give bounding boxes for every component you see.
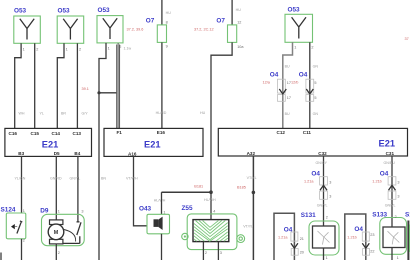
- svg-text:8: 8: [166, 21, 168, 25]
- svg-text:E21: E21: [144, 140, 161, 150]
- component S133 label: [372, 212, 387, 219]
- label BU: [285, 65, 290, 69]
- svg-text:C31: C31: [386, 151, 395, 156]
- svg-text:WH: WH: [19, 111, 25, 115]
- reference 1.21a (C32): [304, 180, 314, 184]
- connector O4 label (BU): [270, 72, 279, 79]
- svg-text:GN: GN: [313, 112, 319, 116]
- svg-text:1: 1: [66, 48, 68, 52]
- svg-text:5: 5: [314, 96, 316, 100]
- pin 2 of O53 #2: [79, 48, 81, 52]
- svg-text:2: 2: [58, 251, 60, 255]
- svg-text:S131: S131: [301, 212, 316, 219]
- svg-text:3: 3: [329, 195, 331, 199]
- component S124 (switch): [6, 213, 26, 239]
- jumper loop 2: [345, 214, 366, 260]
- svg-text:GN: GN: [313, 65, 319, 69]
- svg-text:B181: B181: [194, 185, 203, 189]
- svg-text:GN/YL: GN/YL: [317, 203, 328, 207]
- svg-text:3: 3: [81, 210, 83, 214]
- pin 23: [370, 233, 374, 237]
- svg-text:O7: O7: [146, 18, 155, 25]
- svg-text:O53: O53: [14, 7, 27, 14]
- svg-text:O53: O53: [58, 7, 71, 14]
- cross-reference 37.2, 2C.12: [194, 28, 214, 32]
- svg-text:HU: HU: [236, 8, 242, 12]
- svg-text:B185: B185: [237, 185, 246, 189]
- pin 1 of S131: [326, 256, 328, 260]
- svg-text:YL/GN: YL/GN: [15, 177, 26, 181]
- label HU: [200, 111, 206, 115]
- pin 1 of D9: [58, 210, 60, 214]
- connector O4 inline on BU wire: [278, 79, 287, 101]
- cross-reference 37.2, 39.6: [127, 28, 144, 32]
- wire C32 to S131: [323, 156, 325, 226]
- wire B3 to S124: [21, 156, 23, 213]
- pin 10a of O7#2: [237, 45, 244, 49]
- svg-text:A16: A16: [128, 151, 137, 156]
- wire color label BR: [61, 111, 66, 115]
- wire D9 bottom: [55, 244, 57, 260]
- pin 5 upper: [314, 81, 316, 85]
- pin 22: [370, 250, 374, 254]
- wire A16 to O43: [134, 156, 148, 225]
- pin 1 of O43: [163, 210, 165, 214]
- svg-text:E21: E21: [379, 139, 396, 149]
- svg-text:E16: E16: [157, 130, 166, 135]
- svg-text:GN/YL: GN/YL: [70, 177, 81, 181]
- pin 2 of S131: [326, 215, 328, 219]
- component Z55 label: [182, 205, 193, 212]
- pin C31: [386, 151, 395, 156]
- antenna O53 #2: [57, 16, 83, 43]
- svg-text:37.2, 39.6: 37.2, 39.6: [127, 28, 144, 32]
- svg-text:C12: C12: [277, 130, 286, 135]
- label 1.1w: [124, 46, 132, 50]
- cross-reference 39.1: [82, 87, 89, 91]
- component O7 #2: [228, 25, 237, 43]
- svg-text:C32: C32: [318, 151, 327, 156]
- pin C16: [9, 131, 18, 136]
- connector E21 box 2: [104, 128, 203, 156]
- component O43 (sounder): [147, 214, 170, 234]
- wire S131 bottom: [323, 248, 325, 260]
- junction B181: [209, 190, 213, 194]
- pin 1 of O53 #3: [108, 47, 110, 51]
- wire A32 to bottom: [252, 156, 254, 260]
- antenna O53 #2 label: [58, 7, 71, 14]
- svg-text:2: 2: [79, 48, 81, 52]
- splice B185: [252, 191, 256, 195]
- svg-text:9: 9: [166, 45, 168, 49]
- svg-text:C13: C13: [73, 131, 82, 136]
- svg-text:1: 1: [108, 47, 110, 51]
- pin 2 of D9: [58, 251, 60, 255]
- svg-text:12/b: 12/b: [291, 81, 298, 85]
- svg-text:3: 3: [397, 195, 399, 199]
- svg-text:D5: D5: [54, 151, 60, 156]
- pin 1 of S133: [397, 256, 399, 260]
- svg-text:HU: HU: [166, 11, 172, 15]
- svg-text:C16: C16: [9, 131, 18, 136]
- pin 21: [300, 237, 304, 241]
- antenna O53 #1 label: [14, 7, 27, 14]
- svg-text:VT/YL: VT/YL: [243, 225, 253, 229]
- label GN/RD: [50, 177, 62, 181]
- wire Z55 pin 3: [217, 242, 219, 260]
- junction on shield drain wire: [97, 91, 100, 94]
- svg-text:O4: O4: [380, 170, 389, 177]
- pin 3 lower (C31): [397, 195, 399, 199]
- pin 5 lower: [314, 96, 316, 100]
- svg-text:VT/YL: VT/YL: [247, 176, 257, 180]
- svg-text:5: 5: [314, 81, 316, 85]
- wire O53#2 pin2 to E21 C13: [76, 43, 78, 128]
- pin 2 of Z55: [205, 251, 207, 255]
- pin 3 upper (C31): [397, 180, 399, 184]
- svg-text:O53: O53: [288, 7, 301, 14]
- svg-text:3: 3: [329, 180, 331, 184]
- pin 2 of O53 #1: [36, 48, 38, 52]
- reference 12/b: [291, 81, 298, 85]
- wire O53#1 pin1 to E21 C16: [15, 43, 21, 128]
- label GN/GY: [316, 161, 328, 165]
- connector O4 inline on C31 wire: [388, 177, 396, 200]
- svg-text:BR: BR: [61, 111, 66, 115]
- connector O4 label (loop1): [284, 227, 293, 234]
- svg-text:O4: O4: [270, 72, 279, 79]
- antenna O53 #3: [97, 16, 123, 43]
- svg-text:1.21a: 1.21a: [304, 180, 314, 184]
- wire into O43 top: [161, 192, 163, 214]
- pin 2 of O53 #4: [311, 45, 313, 49]
- svg-text:C11: C11: [303, 130, 312, 135]
- label HL/WH on Z55 branch: [204, 198, 216, 202]
- svg-text:O4: O4: [299, 72, 308, 79]
- pin B4: [74, 151, 80, 156]
- pin A16: [128, 151, 137, 156]
- svg-text:GN/BU: GN/BU: [384, 161, 396, 165]
- svg-text:2: 2: [311, 45, 313, 49]
- edge cross-reference: [405, 37, 409, 41]
- label HU: [236, 8, 242, 12]
- label BN: [101, 177, 106, 181]
- pin 20: [300, 251, 304, 255]
- pin C11: [303, 130, 312, 135]
- antenna O53 #3 label: [98, 7, 111, 14]
- jumper loop 1: [274, 213, 294, 260]
- pin 1 of O53 #4: [294, 45, 296, 49]
- component D9 label: [40, 207, 49, 214]
- pin A32: [247, 151, 256, 156]
- svg-text:4: 4: [213, 210, 215, 214]
- connector E21 box 3: [218, 128, 407, 156]
- net wire O43 to junction B181: [162, 191, 212, 193]
- label YL/GN: [15, 177, 26, 181]
- pin 3 of Z55: [220, 251, 222, 255]
- connector O4 label (C31): [380, 170, 389, 177]
- connector O4 inline on loop 2: [362, 232, 369, 255]
- svg-text:O43: O43: [139, 206, 152, 213]
- svg-text:3: 3: [397, 180, 399, 184]
- connector O4 inline on C32 wire: [320, 177, 328, 200]
- wire S133 bottom: [391, 248, 393, 260]
- component Z55 (antenna amplifier): [182, 214, 245, 250]
- svg-text:2: 2: [326, 215, 328, 219]
- svg-text:O7: O7: [216, 18, 225, 25]
- svg-text:37: 37: [405, 37, 409, 41]
- cut wire at left edge: [0, 253, 2, 260]
- svg-text:D9: D9: [40, 207, 49, 214]
- pin 9 of O7#1: [166, 45, 168, 49]
- wire O53#2 pin1 to E21 C14: [57, 43, 64, 128]
- reference B181: [194, 185, 203, 189]
- svg-text:2: 2: [205, 251, 207, 255]
- svg-text:HL/RD: HL/RD: [156, 111, 167, 115]
- wire junction to Z55 pin 4: [210, 192, 212, 219]
- svg-text:1: 1: [397, 256, 399, 260]
- reference B185: [237, 185, 246, 189]
- svg-text:1.21a: 1.21a: [278, 236, 288, 240]
- svg-text:1.21b: 1.21b: [347, 236, 357, 240]
- component O43 label: [139, 206, 152, 213]
- label GN: [313, 65, 319, 69]
- pin 1 of O53 #2: [66, 48, 68, 52]
- antenna O53 #4: [285, 14, 313, 42]
- svg-text:1: 1: [58, 210, 60, 214]
- svg-text:BU: BU: [285, 65, 290, 69]
- connector O4 inline on loop 1: [291, 232, 298, 255]
- label BU below connector: [285, 112, 290, 116]
- label VT/YL lower: [243, 225, 253, 229]
- pin C13: [73, 131, 82, 136]
- pin 2 of S133: [395, 215, 397, 219]
- pin 8 of O7#1: [166, 21, 168, 25]
- wire Z55 pin 2: [202, 242, 204, 260]
- wire O43 bottom: [161, 234, 163, 260]
- svg-text:BU: BU: [285, 112, 290, 116]
- svg-text:1: 1: [294, 45, 296, 49]
- component O7 #2 label: [216, 18, 225, 25]
- pin 2 of O53 #3: [119, 45, 121, 49]
- svg-text:1: 1: [326, 256, 328, 260]
- svg-text:HL/WH: HL/WH: [204, 198, 216, 202]
- wire O7#2 down and left to junction B181: [211, 42, 232, 192]
- pin 1 of S124: [23, 209, 25, 213]
- connector O4 label (GN): [299, 72, 308, 79]
- svg-text:17: 17: [287, 96, 291, 100]
- pin 1 of O53 #1: [23, 48, 25, 52]
- wire color label YL: [40, 111, 44, 115]
- svg-text:G/Y: G/Y: [82, 111, 89, 115]
- component S124 label: [1, 206, 16, 213]
- svg-text:1: 1: [23, 48, 25, 52]
- svg-text:M: M: [54, 230, 59, 236]
- wire top feed to O7#1 (HU): [161, 0, 163, 25]
- pin C15: [31, 131, 40, 136]
- pin C14: [52, 131, 61, 136]
- E21 label box1: [42, 140, 59, 150]
- component S131 label: [301, 212, 316, 219]
- wire O53#3 pin1 shield drain down to bottom (BN): [99, 43, 106, 260]
- reference 12/a: [263, 81, 271, 85]
- svg-text:S1: S1: [405, 212, 410, 219]
- svg-text:GN/GY: GN/GY: [316, 161, 328, 165]
- svg-text:22: 22: [370, 250, 374, 254]
- reference 1.21b (C31): [372, 180, 382, 184]
- pin 3 lower (C32): [329, 195, 331, 199]
- svg-text:YL: YL: [40, 111, 44, 115]
- antenna O53 #1: [14, 16, 41, 43]
- pin C32: [318, 151, 327, 156]
- component O7 #1 label: [146, 18, 155, 25]
- connector O4 label (C32): [311, 170, 320, 177]
- svg-text:C15: C15: [31, 131, 40, 136]
- svg-text:A32: A32: [247, 151, 256, 156]
- wire at right edge (cut): [407, 221, 409, 260]
- label GN/YL: [385, 203, 396, 207]
- label HL/RD: [156, 111, 167, 115]
- label GN/YL: [317, 203, 328, 207]
- svg-text:2: 2: [395, 215, 397, 219]
- wire O53#4 pin1 to C12 (BU): [283, 42, 293, 128]
- component S133 (sensor): [380, 218, 407, 255]
- green outline of next component (cut): [409, 225, 410, 253]
- svg-text:21: 21: [300, 237, 304, 241]
- pin 12 of O7#2: [237, 21, 241, 25]
- svg-text:BN: BN: [101, 177, 106, 181]
- antenna O53 #4 label: [288, 7, 301, 14]
- label VT/YL upper: [247, 176, 257, 180]
- wire color label G/Y: [82, 111, 89, 115]
- wire S124 bottom: [21, 239, 23, 260]
- wire O7#1 to E21 E16: [161, 42, 163, 128]
- reference 1.21b (loop2): [347, 236, 357, 240]
- svg-text:O4: O4: [284, 227, 293, 234]
- svg-text:F1: F1: [117, 130, 123, 135]
- label GN/BU: [384, 161, 396, 165]
- label HU: [166, 11, 172, 15]
- svg-text:C14: C14: [52, 131, 61, 136]
- svg-text:1: 1: [163, 210, 165, 214]
- pin 3 of D9: [81, 210, 83, 214]
- svg-text:12/a: 12/a: [263, 81, 271, 85]
- svg-text:2: 2: [36, 48, 38, 52]
- svg-text:B3: B3: [18, 151, 24, 156]
- reference 1.21a (loop1): [278, 236, 288, 240]
- svg-text:HU: HU: [200, 111, 206, 115]
- label GN/YL: [70, 177, 81, 181]
- svg-text:10a: 10a: [237, 45, 244, 49]
- svg-text:HL/WH: HL/WH: [154, 199, 166, 203]
- wire O53#4 pin2 to C11 (GN): [309, 42, 311, 128]
- svg-text:1.1w: 1.1w: [124, 46, 132, 50]
- E21 label box3: [379, 139, 396, 149]
- connector E21 box 1: [5, 128, 92, 156]
- pin E16: [157, 130, 166, 135]
- connector O4 inline on GN wire: [306, 79, 314, 101]
- wire D5 to D9 motor: [55, 156, 57, 220]
- component D9 (motor with switch): [42, 214, 85, 245]
- svg-text:2: 2: [23, 238, 25, 242]
- component O7 #1: [157, 25, 166, 43]
- pin C12: [277, 130, 286, 135]
- svg-text:GN/YL: GN/YL: [385, 203, 396, 207]
- svg-text:S124: S124: [1, 206, 16, 213]
- pin 3 upper (C32): [329, 180, 331, 184]
- wire shield tap: [99, 92, 117, 94]
- pin 2 of S124: [23, 238, 25, 242]
- connector O4 label (loop2): [354, 226, 363, 233]
- svg-text:39.1: 39.1: [82, 87, 89, 91]
- svg-text:1: 1: [23, 209, 25, 213]
- svg-text:20: 20: [300, 251, 304, 255]
- svg-text:37.2, 2C.12: 37.2, 2C.12: [194, 28, 214, 32]
- svg-text:23: 23: [370, 233, 374, 237]
- pin F1: [117, 130, 123, 135]
- pin D5: [54, 151, 60, 156]
- component S131 (sensor): [309, 221, 339, 255]
- wire top feed to O7#2 (HU): [231, 0, 233, 25]
- wire C31 to S133: [391, 156, 393, 227]
- wire B4 to D9 switch: [77, 156, 79, 222]
- svg-text:1.21b: 1.21b: [372, 180, 382, 184]
- pin 17 upper: [287, 81, 291, 85]
- svg-text:B4: B4: [74, 151, 80, 156]
- wire color label WH: [19, 111, 25, 115]
- label HL/WH on O43 branch: [154, 199, 166, 203]
- label VT/WH: [126, 177, 138, 181]
- svg-text:GN/RD: GN/RD: [50, 177, 62, 181]
- wire O53#1 pin2 to E21 C15: [34, 43, 36, 128]
- svg-text:3: 3: [220, 251, 222, 255]
- label GN below connector: [313, 112, 319, 116]
- component S135 label (cut at edge): [405, 212, 410, 219]
- svg-text:Z55: Z55: [182, 205, 193, 212]
- svg-text:O4: O4: [311, 170, 320, 177]
- pin 17 lower: [287, 96, 291, 100]
- svg-text:E21: E21: [42, 140, 59, 150]
- shielded cable to F1: [117, 43, 120, 128]
- svg-text:VT/WH: VT/WH: [126, 177, 138, 181]
- pin 4 of Z55: [213, 210, 215, 214]
- E21 label box2: [144, 140, 161, 150]
- svg-text:12: 12: [237, 21, 241, 25]
- pin B3: [18, 151, 24, 156]
- svg-text:O53: O53: [98, 7, 111, 14]
